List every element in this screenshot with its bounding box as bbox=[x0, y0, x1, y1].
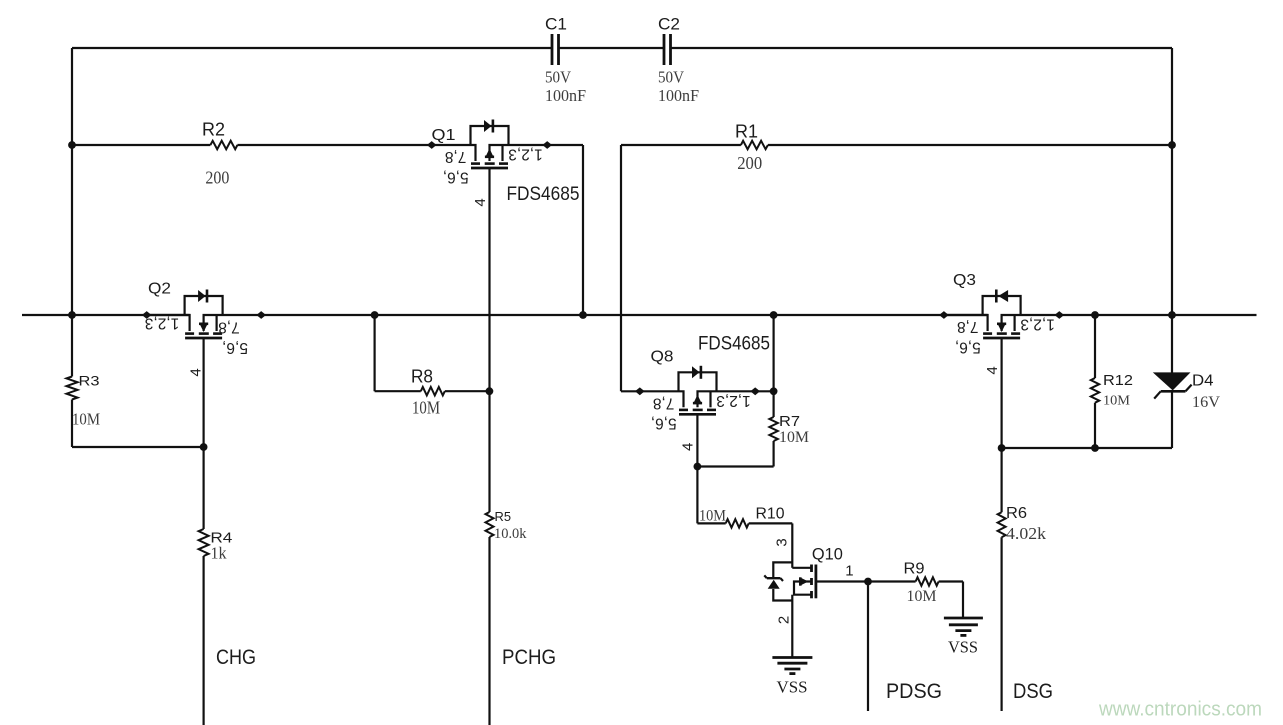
wire R9 lead right bbox=[939, 580, 963, 582]
svg-text:R10: R10 bbox=[756, 506, 785, 523]
svg-text:1,2,3: 1,2,3 bbox=[508, 146, 542, 163]
svg-text:1,2,3: 1,2,3 bbox=[716, 392, 750, 409]
wire Q1 right to corner bbox=[547, 144, 583, 146]
wire R7 bottom to Q8 gate bbox=[697, 465, 773, 467]
wire left vertical from top rail to mid rail bbox=[71, 48, 73, 315]
wire mid rail right segment bbox=[1059, 314, 1256, 316]
svg-text:10M: 10M bbox=[1103, 394, 1131, 409]
svg-text:4: 4 bbox=[187, 368, 204, 376]
svg-text:VSS: VSS bbox=[948, 638, 978, 657]
svg-text:R9: R9 bbox=[904, 561, 925, 578]
svg-text:10M: 10M bbox=[412, 398, 440, 418]
svg-text:7,8: 7,8 bbox=[218, 318, 240, 335]
pin dot Q8 right bbox=[750, 387, 760, 395]
wire mid rail left segment bbox=[22, 314, 190, 316]
wire R7 branch upper bbox=[772, 315, 774, 417]
resistor R10 bbox=[726, 519, 749, 527]
svg-text:7,8: 7,8 bbox=[445, 148, 467, 165]
svg-text:Q3: Q3 bbox=[953, 272, 976, 289]
wire bottom right horizontal bbox=[1002, 447, 1172, 449]
wire R10 lead right bbox=[749, 522, 793, 524]
pin dot Q2 left bbox=[142, 311, 152, 319]
pin dot Q3 left bbox=[939, 311, 949, 319]
svg-text:Q8: Q8 bbox=[651, 349, 674, 366]
wire Q8 gate down bbox=[696, 414, 698, 523]
wire Q10 source down bbox=[791, 595, 793, 657]
wire R3 leads bbox=[71, 315, 73, 377]
junction R1-right vertical bbox=[1168, 141, 1176, 149]
zener diode D4 bbox=[1153, 372, 1192, 398]
svg-text:16V: 16V bbox=[1192, 394, 1220, 411]
svg-text:200: 200 bbox=[737, 153, 762, 173]
svg-text:50V: 50V bbox=[658, 68, 685, 87]
junction CHG line bbox=[200, 443, 208, 451]
junction mid rail left vertical bbox=[68, 311, 76, 319]
svg-text:PDSG: PDSG bbox=[886, 680, 942, 703]
resistor R9 bbox=[916, 577, 939, 585]
resistor R5 bbox=[486, 512, 494, 537]
svg-text:4: 4 bbox=[984, 366, 1001, 374]
wire Q8 row left bbox=[621, 390, 640, 392]
svg-text:R6: R6 bbox=[1006, 505, 1027, 522]
wire row2 to Q1 bbox=[237, 144, 431, 146]
wire R10 lead left bbox=[697, 522, 725, 524]
junction R12 top bbox=[1091, 311, 1099, 319]
svg-text:4: 4 bbox=[472, 198, 489, 206]
transistor Q3 bbox=[944, 290, 1059, 339]
wire R7 lower bbox=[772, 441, 774, 467]
wire row2 left segment bbox=[72, 144, 210, 146]
wire PDSG line bbox=[867, 582, 869, 712]
transistor Q10 bbox=[764, 562, 816, 600]
svg-text:R1: R1 bbox=[735, 122, 758, 142]
junction R7 top bbox=[770, 387, 778, 395]
svg-text:VSS: VSS bbox=[777, 678, 808, 697]
svg-text:R2: R2 bbox=[202, 120, 225, 140]
wire R12 lower lead bbox=[1094, 403, 1096, 448]
junction R12 bottom bbox=[1091, 444, 1099, 452]
wire D4 lower lead bbox=[1171, 391, 1173, 448]
wire R8 lead left bbox=[375, 390, 421, 392]
wire CHG line lower bbox=[203, 556, 205, 725]
wire R8 branch down bbox=[374, 315, 376, 391]
wire R8 lead right bbox=[445, 390, 490, 392]
svg-text:D4: D4 bbox=[1192, 373, 1214, 390]
svg-text:4: 4 bbox=[680, 443, 697, 451]
junction Q8 gate line bbox=[694, 463, 702, 471]
resistor R7 bbox=[769, 417, 777, 441]
capacitor C2 bbox=[663, 34, 666, 65]
svg-text:2: 2 bbox=[775, 616, 792, 624]
resistor R1 bbox=[741, 141, 768, 149]
junction R8 on mid rail bbox=[371, 311, 379, 319]
wire R3 bottom to CHG line bbox=[72, 446, 204, 448]
wire Q3 gate down bbox=[1000, 338, 1002, 512]
svg-text:10M: 10M bbox=[699, 508, 726, 525]
svg-text:CHG: CHG bbox=[216, 646, 256, 669]
pin dot Q3 right bbox=[1055, 311, 1065, 319]
svg-text:C2: C2 bbox=[658, 15, 680, 34]
pin dot Q2 right bbox=[256, 311, 266, 319]
wire R9 lead left bbox=[868, 580, 916, 582]
junction right vertical mid rail bbox=[1168, 311, 1176, 319]
svg-text:www.cntronics.com: www.cntronics.com bbox=[1098, 699, 1262, 721]
svg-text:Q10: Q10 bbox=[812, 545, 843, 564]
wire R1 to right vertical bbox=[768, 144, 1172, 146]
wire Q10 top pin bbox=[791, 523, 793, 567]
wire Q10 gate to junction bbox=[816, 580, 868, 582]
transistor Q8 bbox=[640, 366, 755, 415]
wire top rail left segment bbox=[72, 47, 552, 49]
junction PDSG bbox=[864, 578, 872, 586]
wire PCHG line lower bbox=[488, 537, 490, 725]
wire Q2 gate down bbox=[203, 338, 205, 529]
junction R7 on mid rail bbox=[770, 311, 778, 319]
svg-text:10.0k: 10.0k bbox=[494, 526, 527, 542]
svg-text:DSG: DSG bbox=[1013, 680, 1053, 703]
capacitor C1 bbox=[551, 34, 554, 65]
transistor Q2 bbox=[146, 290, 261, 339]
wire right vertical upper bbox=[1171, 48, 1173, 373]
resistor R2 bbox=[210, 141, 237, 149]
svg-text:4.02k: 4.02k bbox=[1006, 524, 1047, 543]
svg-text:7,8: 7,8 bbox=[957, 318, 979, 335]
svg-text:1,2,3: 1,2,3 bbox=[145, 314, 179, 331]
wire R1 row bbox=[621, 144, 741, 146]
wire Q8 left vertical bbox=[620, 145, 622, 391]
svg-text:50V: 50V bbox=[545, 68, 572, 87]
svg-text:R8: R8 bbox=[411, 367, 433, 387]
resistor R12 bbox=[1091, 378, 1099, 403]
wire Q8 right to R7 branch bbox=[755, 390, 774, 392]
junction row2-left vertical bbox=[68, 141, 76, 149]
svg-text:7,8: 7,8 bbox=[653, 394, 675, 411]
junction DSG bottom wire bbox=[998, 444, 1006, 452]
svg-text:FDS4685: FDS4685 bbox=[507, 184, 580, 205]
resistor R4 bbox=[199, 529, 209, 556]
svg-text:5,6,: 5,6, bbox=[443, 168, 469, 185]
svg-text:1: 1 bbox=[845, 563, 853, 580]
wire top rail right segment bbox=[671, 47, 1173, 49]
resistor R3 bbox=[67, 377, 78, 400]
wire top rail middle segment bbox=[559, 47, 665, 49]
ground VSS right bbox=[944, 618, 983, 635]
transistor Q1 bbox=[432, 120, 547, 169]
junction R8-PCHG line bbox=[486, 387, 494, 395]
svg-text:3: 3 bbox=[773, 538, 790, 546]
svg-text:1,2,3: 1,2,3 bbox=[1020, 316, 1054, 333]
wire R9 down to ground bbox=[962, 582, 964, 619]
svg-text:5,6,: 5,6, bbox=[651, 415, 677, 432]
wire mid rail middle segment bbox=[261, 314, 987, 316]
pin dot Q1 left bbox=[427, 141, 437, 149]
resistor R6 bbox=[998, 512, 1006, 537]
resistor R8 bbox=[421, 387, 445, 395]
svg-text:5,6,: 5,6, bbox=[222, 339, 248, 356]
svg-text:FDS4685: FDS4685 bbox=[698, 334, 770, 355]
pin dot Q1 right bbox=[542, 141, 552, 149]
svg-text:R7: R7 bbox=[779, 414, 800, 430]
wire Q1 gate down PCHG upper bbox=[488, 168, 490, 512]
wire R12 upper lead bbox=[1094, 315, 1096, 378]
svg-text:100nF: 100nF bbox=[545, 86, 586, 105]
junction Q1 branch on mid rail bbox=[579, 311, 587, 319]
svg-text:100nF: 100nF bbox=[658, 86, 699, 105]
svg-text:R3: R3 bbox=[79, 373, 100, 389]
svg-text:PCHG: PCHG bbox=[502, 646, 556, 669]
pin dot Q8 left bbox=[635, 387, 645, 395]
svg-text:1k: 1k bbox=[211, 544, 227, 563]
svg-text:10M: 10M bbox=[779, 429, 809, 446]
svg-text:5,6,: 5,6, bbox=[955, 338, 981, 355]
svg-text:200: 200 bbox=[205, 168, 229, 188]
svg-text:C1: C1 bbox=[545, 15, 567, 34]
ground VSS below Q10 bbox=[772, 658, 812, 674]
svg-text:10M: 10M bbox=[72, 410, 100, 429]
wire Q1 branch down to mid rail bbox=[582, 145, 584, 315]
svg-text:R5: R5 bbox=[495, 509, 512, 524]
svg-text:Q1: Q1 bbox=[432, 127, 456, 144]
wire DSG line lower bbox=[1000, 537, 1002, 711]
svg-text:Q2: Q2 bbox=[148, 281, 171, 298]
svg-text:10M: 10M bbox=[907, 588, 937, 605]
svg-text:R12: R12 bbox=[1103, 372, 1133, 389]
